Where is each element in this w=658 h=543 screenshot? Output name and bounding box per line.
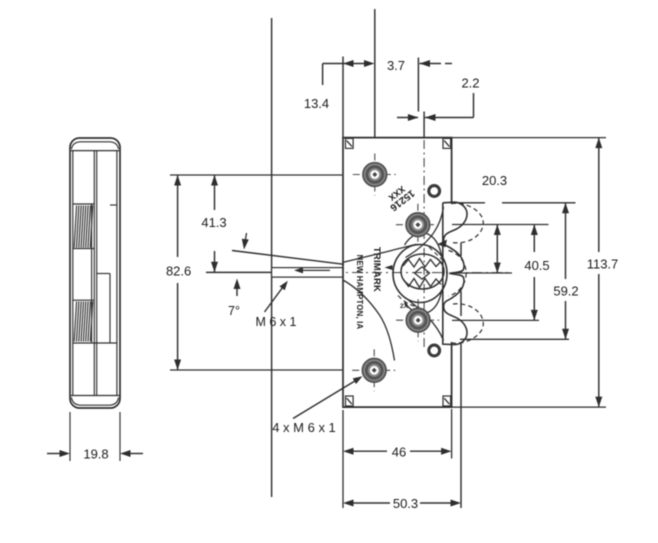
svg-text:59.2: 59.2 [553,284,578,299]
side view shelf line y300 [73,299,95,301]
latch bolt silhouette [443,202,467,344]
dim 13.4 bracket [323,63,372,65]
dim 20.3 arrows [496,225,498,274]
cam vertical centerline [423,140,425,348]
dim 46 line [349,450,387,452]
side view right cell divider [97,273,110,275]
side view coil cell boundary [91,204,93,343]
svg-text:19.8: 19.8 [83,447,108,462]
side view inner right wall [116,151,118,396]
svg-text:4 x M 6 x 1: 4 x M 6 x 1 [272,420,336,435]
lower sweep curve [409,301,444,341]
dim 59.2 line [565,203,567,279]
angle 7-degree lower arrow [236,282,238,296]
dim 50.3 line [349,502,390,504]
svg-text:20.3: 20.3 [482,173,507,188]
svg-text:82.6: 82.6 [166,264,191,279]
side view inner bottom arc [72,398,119,406]
cam inner egg [401,254,444,289]
extension line plate left down [342,410,344,508]
striker blade outline [272,268,343,278]
corner mark bottom-right [443,396,451,406]
boss B2 [396,204,440,246]
svg-text:113.7: 113.7 [587,257,619,272]
plate top edge extension right [452,137,606,139]
side view outer housing outline [70,138,120,408]
cam zigzag lower [403,279,441,288]
blade-tip reference line [271,18,273,497]
side view spring coil upper [74,206,76,248]
svg-text:M 6 x 1: M 6 x 1 [256,315,297,329]
extension line plate right down [451,409,453,459]
side view inner top arc [72,142,119,149]
angle 7-degree arc arrow [245,233,247,246]
leader 4xM6x1 [293,379,359,419]
svg-text:50.3: 50.3 [393,496,418,511]
svg-text:13.4: 13.4 [304,96,329,111]
cam centerline extension right [455,272,512,274]
dim 2.2 right arrow [397,117,418,119]
side view center wall (double line) [93,151,95,396]
plate flange right edge [460,243,462,256]
plate-left-edge extension up [342,57,344,138]
dim 13.4 arrows [343,60,354,67]
dim 40.5 line [533,225,535,253]
side view shelf line y248 [73,248,95,250]
corner mark top-right [443,138,451,148]
extension line boss row 1 [170,174,342,176]
dim 2.2 leader [473,93,475,118]
side view bottom cap line [71,395,120,397]
angle 7-degree reference line [232,251,344,265]
svg-text:41.3: 41.3 [201,215,226,230]
slot centerline above plate [374,9,376,138]
rotation direction arrow [437,240,447,248]
cam centerline extension up [423,112,425,138]
side view shelf line y204 [73,203,95,205]
plate bottom edge extension right [452,406,606,408]
svg-text:40.5: 40.5 [524,258,549,273]
upper sweep curve [406,207,444,258]
phantom upper lobe (dashed) [451,203,483,243]
side view top cap line [71,150,120,152]
dim 3.7 arrow [420,63,442,65]
corner mark bottom-left [346,396,354,406]
dim 113.7 line [598,138,600,252]
washer hole bottom [429,345,440,356]
side view shelf line y343 [73,342,117,344]
phantom lower lobe (dashed) [451,304,483,343]
cam center diamond [415,267,430,279]
extension line A (lobe top) [453,202,485,204]
dim 82.6 line [177,175,179,257]
horizontal centerline through blade and cam [206,271,272,273]
boss column 2 extension up [417,58,419,112]
striker blade direction arrow [298,269,330,271]
svg-text:7°: 7° [228,304,240,318]
plate outline [343,138,452,408]
upper inner curve [405,233,443,258]
extension line D (lobe bottom) [460,338,569,340]
corner mark top-left [346,138,354,148]
side view spring coil lower [74,302,76,342]
phantom bolt circle (dashed) [449,251,467,297]
svg-text:46: 46 [392,445,406,460]
phantom chord inside cam (dashed) [429,247,443,261]
extension line boss row 4 [170,369,342,371]
extension line (boss row 3) [452,319,539,321]
phantom cam lower-left (dashed) [398,296,420,308]
boss B3 [396,299,440,341]
washer hole top [429,186,440,197]
cam outer housing [393,245,447,303]
cam zigzag upper [403,259,441,268]
svg-text:3.7: 3.7 [387,58,405,73]
lower inner curve [405,289,443,314]
boss B1 [353,154,397,196]
dim 19.8 extension lines [69,412,71,461]
svg-text:2.2: 2.2 [461,76,479,91]
throat arrowhead [385,265,393,270]
side view inner left wall [72,151,74,396]
dim 19.8 arrows [47,453,60,455]
svg-text:2X: 2X [400,303,409,310]
dim 41.3 line [214,175,216,210]
leader M6x1 [265,284,286,313]
funnel lower wall [343,280,395,361]
extension line B (boss row 2) [452,224,549,226]
boss B4 [352,349,396,391]
funnel upper wall [343,244,417,262]
